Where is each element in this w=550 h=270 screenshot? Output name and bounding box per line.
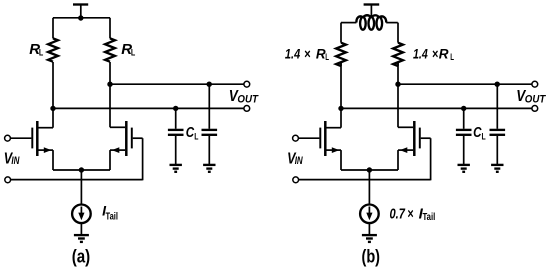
svg-text:1.4: 1.4 [413, 46, 428, 61]
svg-text:Tail: Tail [106, 211, 119, 223]
svg-text:IN: IN [11, 155, 20, 167]
svg-text:×: × [407, 205, 413, 222]
svg-text:0.7: 0.7 [390, 205, 406, 222]
svg-text:(b): (b) [362, 246, 381, 266]
svg-text:OUT: OUT [525, 93, 547, 105]
svg-text:Tail: Tail [423, 211, 436, 223]
svg-text:L: L [450, 52, 454, 62]
svg-text:(a): (a) [72, 246, 91, 266]
svg-text:×: × [304, 46, 311, 61]
svg-text:L: L [325, 52, 329, 62]
svg-text:L: L [482, 131, 486, 142]
svg-text:R: R [439, 46, 449, 61]
svg-text:L: L [39, 48, 44, 59]
svg-text:IN: IN [295, 155, 304, 167]
svg-text:OUT: OUT [237, 93, 259, 105]
svg-text:1.4: 1.4 [285, 46, 301, 61]
svg-text:×: × [432, 46, 438, 61]
svg-text:L: L [131, 48, 136, 59]
svg-text:L: L [194, 131, 198, 142]
